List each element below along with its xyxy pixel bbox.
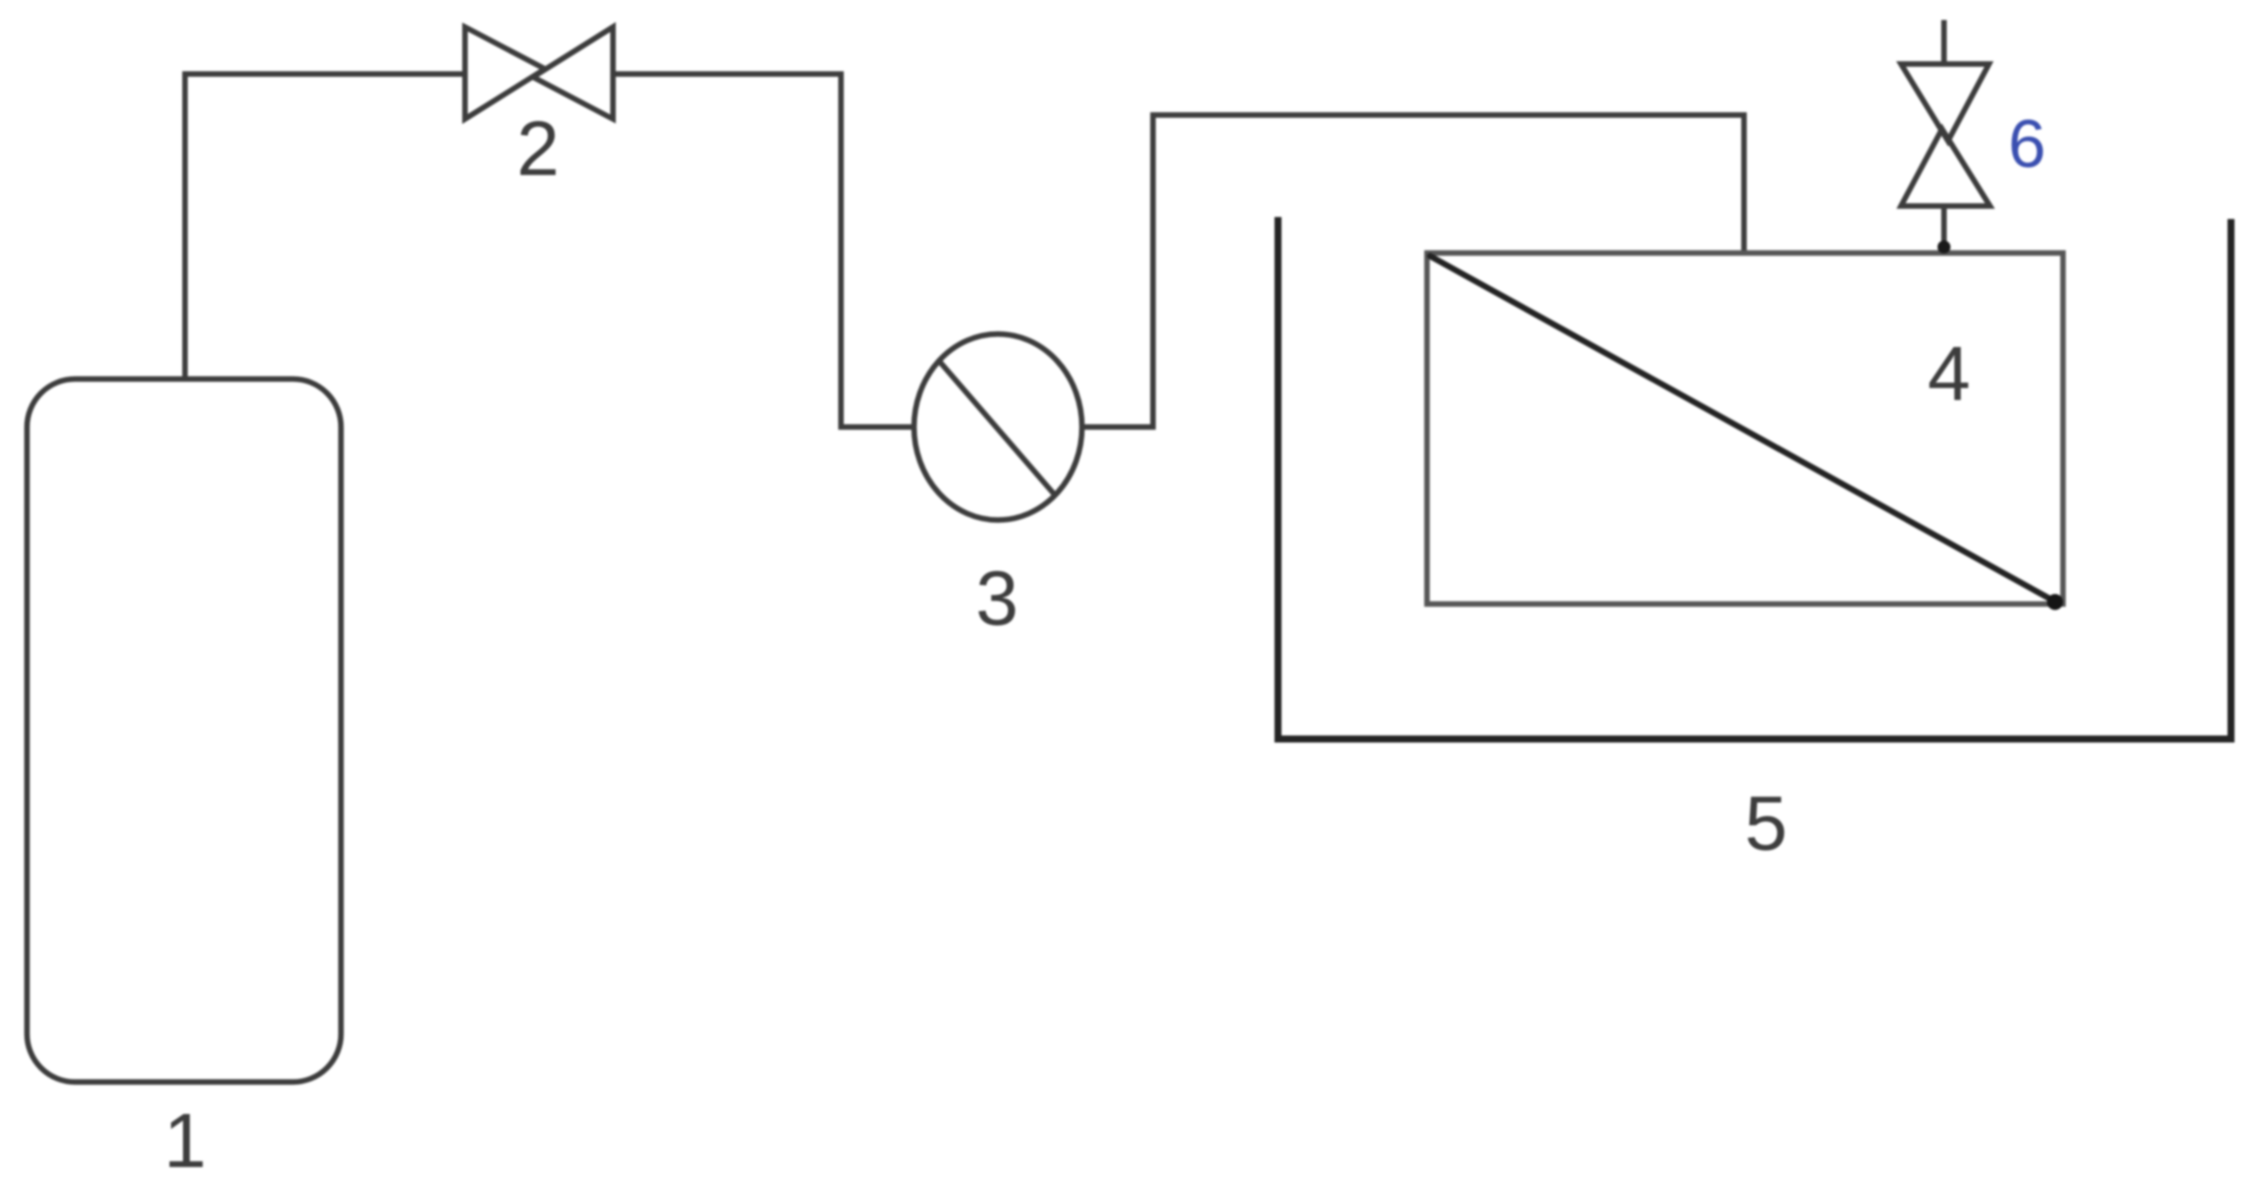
svg-text:1: 1	[164, 1098, 207, 1179]
svg-text:6: 6	[2008, 106, 2046, 182]
pump 3 diagonal	[940, 362, 1054, 494]
module 4 diagonal end dot	[2047, 594, 2063, 610]
membrane module 4	[1427, 253, 2063, 604]
valve 6 stem top	[1941, 20, 1947, 64]
svg-text:5: 5	[1745, 781, 1788, 867]
pump 3	[914, 334, 1082, 520]
wire valve 2 to pump 3	[612, 74, 914, 427]
valve 6	[1901, 64, 1990, 206]
module 4 diagonal	[1430, 256, 2054, 601]
wire cylinder 1 to valve 2	[185, 74, 466, 379]
valve 6 stem bottom	[1941, 206, 1947, 253]
svg-text:3: 3	[976, 556, 1019, 642]
junction dot valve 6 to module 4	[1938, 241, 1951, 254]
gas cylinder 1	[27, 379, 341, 1082]
valve 2	[465, 27, 613, 119]
svg-text:2: 2	[517, 106, 560, 192]
wire pump 3 to module 4	[1082, 115, 1744, 427]
water bath tank 5	[1278, 217, 2231, 739]
svg-text:4: 4	[1928, 331, 1971, 417]
